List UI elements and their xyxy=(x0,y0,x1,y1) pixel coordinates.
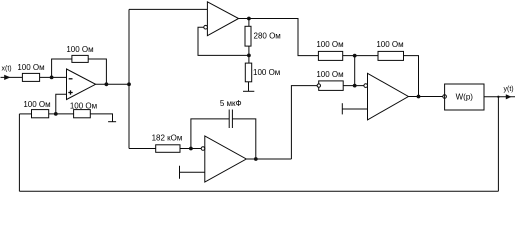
resistor R6 100 Ом (summer top) xyxy=(318,51,342,60)
U4 inverting input bubble xyxy=(364,84,368,88)
wire U2 feedback to divider xyxy=(198,27,249,55)
wire J9 to J11 xyxy=(354,56,356,86)
wire U3 output xyxy=(246,158,291,160)
wire J6 to R3 xyxy=(248,19,250,27)
wire U2 output xyxy=(239,19,319,56)
svg-text:100 Ом: 100 Ом xyxy=(17,63,44,72)
resistor R4 100 Ом (divider) xyxy=(245,63,251,82)
wire input lead xyxy=(1,76,23,78)
svg-text:100 Ом: 100 Ом xyxy=(376,40,403,49)
ground (R10) xyxy=(108,121,116,123)
block W(p) xyxy=(445,84,484,110)
wire R9 to R10 xyxy=(49,113,74,115)
wire U3 output up to summer xyxy=(291,86,317,159)
wire W(p) output xyxy=(484,96,515,98)
node J11 xyxy=(353,84,357,88)
U1 minus sign xyxy=(69,78,73,80)
resistor R8 100 Ом (summer lower) xyxy=(319,81,344,91)
resistor R2 100 Ом (U1 feedback) xyxy=(72,55,88,62)
resistor R3 280 Ом xyxy=(245,26,251,46)
svg-text:100 Ом: 100 Ом xyxy=(23,100,50,109)
U3 inverting input bubble xyxy=(201,147,205,151)
node J1 junction xyxy=(50,76,54,80)
op-amp U3 xyxy=(205,136,247,182)
svg-text:100 Ом: 100 Ом xyxy=(316,70,343,79)
wire capacitor branch up xyxy=(191,119,229,149)
wire top branch to U2 xyxy=(129,8,207,10)
ground (U4 +) xyxy=(341,103,343,114)
node J9 xyxy=(353,54,357,58)
resistor R10 100 Ом (to ground) xyxy=(74,110,91,118)
wire R5 to U3 input xyxy=(180,148,201,150)
ground (divider) xyxy=(243,90,254,92)
wire U4 output xyxy=(408,96,442,98)
op-amp U4 xyxy=(368,73,409,120)
resistor R9 100 Ом (feedback) xyxy=(32,110,49,118)
wire capacitor to U3 output xyxy=(232,119,255,159)
wire feedback down xyxy=(497,97,499,192)
wire U3 non-inverting input xyxy=(180,171,205,173)
node output branch junction xyxy=(497,96,499,98)
svg-text:100 Ом: 100 Ом xyxy=(70,102,97,111)
wire R8 to U4 input xyxy=(343,85,364,87)
wire R10 to ground xyxy=(90,114,112,122)
wire bus to R5 xyxy=(129,148,156,150)
wire feedback tap up xyxy=(52,59,72,77)
R8 input bubble xyxy=(317,84,320,87)
wire U1 output xyxy=(96,83,129,85)
wire feedback bottom xyxy=(19,190,498,192)
input arrow xyxy=(4,75,10,80)
wire R6 to J9 xyxy=(343,55,378,57)
output arrow xyxy=(506,94,512,99)
wire U4 non-inverting input xyxy=(342,108,367,110)
wire R7 to output xyxy=(404,56,419,97)
svg-text:100 Ом: 100 Ом xyxy=(253,68,280,77)
wire feedback left up xyxy=(18,114,20,191)
node J5 xyxy=(247,54,251,58)
svg-text:y(t): y(t) xyxy=(504,86,514,93)
svg-text:100 Ом: 100 Ом xyxy=(316,40,343,49)
W(p) input bubble xyxy=(443,95,447,99)
svg-text:280 Ом: 280 Ом xyxy=(254,32,281,41)
svg-text:x(t): x(t) xyxy=(2,66,12,73)
wire to R9 xyxy=(19,113,31,115)
op-amp U2 xyxy=(207,2,238,36)
resistor R7 100 Ом (summer feedback) xyxy=(378,51,404,60)
U1 plus sign xyxy=(68,92,72,94)
svg-text:W(p): W(p) xyxy=(456,93,474,102)
node J3 xyxy=(54,112,58,116)
svg-text:182 кОм: 182 кОм xyxy=(152,134,183,143)
wire feedback to output xyxy=(88,59,106,84)
svg-text:5 мкФ: 5 мкФ xyxy=(220,99,242,108)
node J4 bus junction xyxy=(127,82,131,86)
node J6 xyxy=(247,17,251,21)
op-amp U1 xyxy=(67,69,96,100)
wire vertical bus xyxy=(128,9,130,148)
node J8 xyxy=(254,157,258,161)
svg-text:100 Ом: 100 Ом xyxy=(66,45,93,54)
node J7 xyxy=(189,147,193,151)
ground (U3 +) xyxy=(179,166,181,179)
resistor R5 182 кОм xyxy=(156,145,180,153)
capacitor C1 5 мкФ xyxy=(228,110,230,129)
wire R1 to op-amp U1 inverting input xyxy=(40,76,67,78)
wire R3 to R4 xyxy=(248,46,250,63)
node J10 xyxy=(417,95,421,99)
node J2 feedback junction xyxy=(105,82,109,86)
wire U1 non-inverting input xyxy=(56,94,67,114)
U2 inverting input bubble xyxy=(204,25,208,29)
wire R4 to ground xyxy=(248,82,250,92)
resistor R1 100 Ом (input) xyxy=(22,73,39,81)
